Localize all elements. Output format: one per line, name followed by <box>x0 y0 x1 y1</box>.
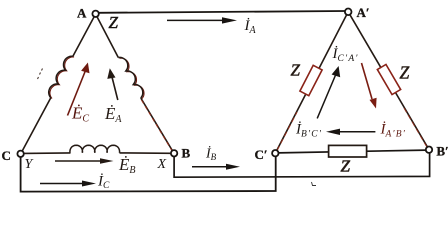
svg-text:Z: Z <box>291 61 301 80</box>
node B <box>171 150 177 156</box>
node C <box>17 151 23 157</box>
svg-text:İC: İC <box>97 174 110 192</box>
label I_C <box>97 174 110 192</box>
svg-text:C: C <box>2 148 11 163</box>
svg-text:Z: Z <box>400 63 410 83</box>
winding coil phase C on side A-C <box>49 56 74 98</box>
right triangle side A'-C' (load branch C'A') <box>275 12 348 153</box>
label X (winding terminal at B) <box>157 157 167 172</box>
label Y (winding terminal at C) <box>25 157 35 172</box>
label B <box>182 146 191 161</box>
impedance box Z in branch A'B' <box>377 64 400 94</box>
triangle side C-B right segment <box>120 152 172 154</box>
node A' <box>345 9 352 16</box>
label I_B <box>205 146 217 163</box>
label Z (winding terminal at A) <box>109 13 119 32</box>
impedance box Z in branch B'C' <box>329 145 367 157</box>
EMF arrow E_B (points toward B) <box>55 158 114 164</box>
impedance box Z in branch C'A' <box>300 65 322 95</box>
label C' <box>255 147 268 162</box>
svg-text:İC′A′: İC′A′ <box>332 46 359 64</box>
winding coil phase A on side A-B <box>118 57 144 98</box>
svg-text:B: B <box>182 146 191 161</box>
label A <box>77 6 87 21</box>
winding coil phase B on side C-B <box>70 145 120 153</box>
svg-text:A: A <box>77 6 87 21</box>
label Z (branch B'C') <box>341 157 351 176</box>
current arrow I_B'C' (points toward C') <box>326 129 375 135</box>
svg-text:ĖA: ĖA <box>104 104 122 125</box>
svg-text:İA: İA <box>244 18 257 36</box>
label Z (branch A'B') <box>400 63 410 83</box>
right triangle side A'-B' (load branch A'B') <box>348 12 429 150</box>
svg-text:Z: Z <box>109 13 119 32</box>
label Z (branch C'A') <box>291 61 301 80</box>
EMF arrow E_C (points toward A) <box>68 63 90 116</box>
svg-text:İB′C′: İB′C′ <box>295 122 322 140</box>
wire A to A' (line conductor A) <box>99 11 346 13</box>
label I_B'C' <box>295 122 322 140</box>
triangle side A-B upper segment <box>96 14 119 58</box>
wire B to B' (line conductor B) <box>174 153 430 177</box>
label C <box>2 148 11 163</box>
label I_A <box>244 18 257 36</box>
svg-text:İB: İB <box>205 146 217 163</box>
current arrow I_C'A' <box>317 66 340 118</box>
svg-text:B′: B′ <box>436 143 448 158</box>
current arrow I_A <box>167 17 237 23</box>
label I_A'B' <box>380 122 407 140</box>
stray scan tick below load Z <box>312 182 317 186</box>
label E_B <box>118 155 136 176</box>
current arrow I_C <box>40 181 96 187</box>
triangle side A-B lower segment <box>141 98 174 154</box>
label A' <box>357 5 370 20</box>
svg-text:İA′B′: İA′B′ <box>380 122 407 140</box>
triangle side A-C upper segment <box>73 14 96 56</box>
label E_A <box>104 104 122 125</box>
current arrow I_B <box>192 164 240 170</box>
triangle side A-C lower segment <box>21 98 51 154</box>
node B' <box>426 147 432 153</box>
triangle side C-B left segment <box>24 152 71 155</box>
svg-text:ĖC: ĖC <box>71 103 89 124</box>
label B' <box>436 143 448 158</box>
right triangle side C'-B' (load branch B'C') <box>278 150 426 153</box>
node C' <box>272 150 278 156</box>
stray scan mark top-left <box>38 69 43 80</box>
label I_C'A' <box>332 46 359 64</box>
svg-text:ĖB: ĖB <box>118 155 136 176</box>
node A <box>92 11 98 17</box>
svg-text:C′: C′ <box>255 147 268 162</box>
svg-text:A′: A′ <box>357 5 370 20</box>
label E_C <box>71 103 89 124</box>
svg-text:Z: Z <box>341 157 351 176</box>
svg-text:X: X <box>157 157 167 172</box>
svg-text:Y: Y <box>25 157 35 172</box>
EMF arrow E_A (points toward A) <box>107 68 118 100</box>
wire C to C' (line conductor C) <box>21 157 276 192</box>
current arrow I_A'B' (red, points toward B') <box>362 63 377 109</box>
